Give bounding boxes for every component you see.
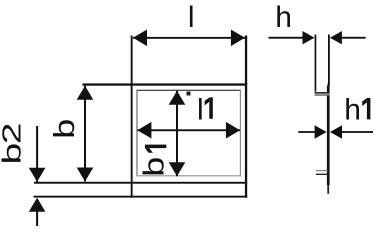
dimension line h1 right segment [342,131,373,133]
band bottom line [34,196,248,198]
label h1 digit one [362,98,370,119]
svg-text:b: b [137,157,170,177]
profile plate [327,86,330,185]
body left edge [131,36,133,198]
marker square [187,92,191,96]
dimension line h right segment [342,37,366,39]
arrowhead l left [133,30,147,47]
inner window left edge [136,90,137,177]
arrowhead l1 right [226,122,240,139]
profile right wall upper [328,35,330,85]
arrowhead l right [231,30,245,47]
label b1 digit one [145,145,166,153]
arrowhead b2 down [29,168,46,182]
svg-text:l: l [197,94,204,127]
profile channel bottom inner line [315,95,330,96]
arrowhead h1 left [315,125,327,138]
arrowhead b1 up [169,91,186,105]
svg-text:h: h [344,94,361,127]
body top edge [83,83,248,85]
svg-text:l: l [188,1,195,34]
dimension line b [84,86,86,182]
dimension line b2 lower [36,211,38,226]
profile channel bottom outer line [315,92,330,93]
body right edge [245,36,247,198]
arrowhead h1 right [330,125,342,138]
profile tab lower line [316,174,328,175]
inner window right edge [240,90,241,177]
label l1 digit one [205,97,213,118]
profile right wall kink [327,83,330,88]
inner window top edge [136,90,241,91]
dimension line b2 upper [36,126,38,182]
arrowhead h right [330,31,342,44]
svg-text:h: h [275,1,292,34]
arrowhead b2 up [29,198,46,212]
band top line [34,182,247,184]
profile tab upper line [316,170,328,171]
dimension line h left segment [269,37,303,39]
arrowhead h left [303,31,315,44]
arrowhead b1 down [169,162,186,176]
arrowhead b up [77,86,94,100]
arrowhead b down [77,168,94,182]
dimension line b1 [176,91,178,177]
svg-text:b2: b2 [0,123,27,164]
dimension line l1 [137,129,240,131]
profile left wall [315,35,317,92]
profile plate lower tip [327,185,329,194]
dimension line h1 left segment [298,131,315,133]
arrowhead l1 left [137,122,151,139]
profile channel bottom gray fill [315,94,330,95]
svg-text:b: b [47,119,80,139]
inner window bottom edge [136,175,241,176]
dimension line l [133,37,245,39]
